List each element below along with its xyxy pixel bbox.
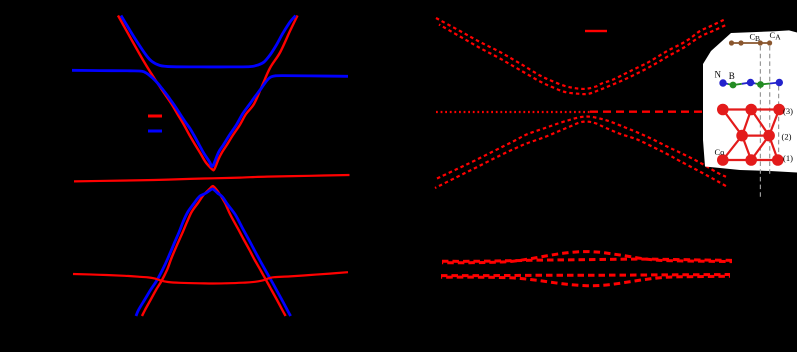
inset white background blob [703,30,797,172]
svg-text:A: A [775,33,781,42]
blue band: lower Dirac cone Lambda (hybridized) [136,189,291,316]
red dashed band: valence hyperbola upper line [437,117,726,179]
carbon chain bond [732,42,771,44]
N atom 5 [776,79,783,86]
red band: upper Dirac cone V (left panel) [118,16,298,171]
carbon chain atom C3 [758,40,763,45]
B atom 4 [757,81,764,88]
svg-text:(2): (2) [782,132,792,142]
red band: low flat band with exchange step at crossings [73,272,348,283]
Co lattice bonds [723,108,779,110]
Co atom 7 [745,154,757,166]
BN chain bonds [723,83,728,84]
red dashed sigma band: dip [441,276,730,286]
Co atom 6 [717,154,729,166]
Co atom 8 [772,154,784,166]
svg-text:N: N [715,70,722,80]
red band: lower Dirac cone Lambda [142,186,286,316]
Co atom 1 [717,104,729,116]
Co atom 2 [745,104,757,116]
red dashed band: conduction hyperbola lower line [439,25,727,95]
Co atom 5 [763,130,775,142]
carbon chain atom C1 [729,40,734,45]
blue band: hybridized inner U inside upper cone [121,16,296,67]
Co atom 3 [773,104,785,116]
svg-text:(3): (3) [783,106,793,116]
red dashed flat band right of K [590,111,730,113]
legend key red dash (left panel) [148,115,162,118]
svg-text:B: B [729,71,735,81]
unit cell dashed line right [778,86,780,160]
Co atom 4 [736,130,748,142]
svg-text:(1): (1) [783,153,793,163]
red dashed band: conduction hyperbola upper line (right panel) [436,18,726,89]
red dashed sigma band: flat lower [441,275,730,276]
red dashed sigma band: flat upper [442,259,732,261]
red band: nearly flat band at mid energy [74,175,350,181]
unit cell dashed line middle [769,46,771,174]
B atom 2 [730,82,737,89]
legend key red line (right panel) [585,30,607,32]
blue band: flat band with avoided crossings (outer W) [72,70,348,166]
red dotted flat band left of K [436,111,590,113]
carbon chain atom C4 [767,40,772,45]
svg-text:Co: Co [715,147,725,157]
N atom 3 [747,79,754,86]
unit cell dashed line left [759,46,761,197]
N atom 1 [719,79,726,86]
svg-text:B: B [755,34,760,43]
carbon chain atom C2 [738,40,743,45]
red dashed sigma band: bump [442,252,732,263]
red dashed band: valence hyperbola lower line [435,122,727,188]
legend key blue dash (left panel) [148,130,162,133]
